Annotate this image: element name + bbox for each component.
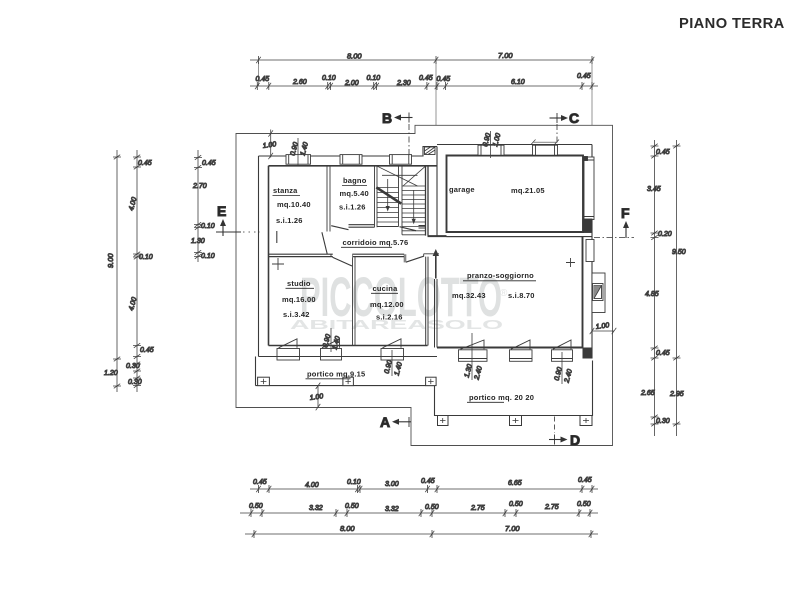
- svg-text:0.20: 0.20: [658, 231, 672, 238]
- svg-text:0.45: 0.45: [656, 350, 670, 357]
- svg-text:0.30: 0.30: [128, 379, 142, 386]
- door cucina jog: [404, 254, 406, 262]
- svg-text:0.45: 0.45: [419, 75, 433, 82]
- wall pranzo west: [435, 279, 438, 348]
- wall west outer: [258, 156, 260, 357]
- portico left pillar 3: [426, 377, 437, 385]
- dim tick: [503, 509, 508, 517]
- wall stair right: [426, 166, 429, 236]
- svg-text:s.i.8.70: s.i.8.70: [508, 291, 535, 300]
- chimney hatched box: [425, 147, 436, 155]
- dim tick: [358, 485, 363, 493]
- window bagno top: [340, 155, 362, 165]
- svg-text:0.45: 0.45: [140, 347, 154, 354]
- svg-text:3.45: 3.45: [647, 186, 661, 193]
- svg-text:garage: garage: [449, 185, 475, 194]
- svg-text:PIANO TERRA: PIANO TERRA: [679, 16, 785, 32]
- stair bottom line: [377, 226, 399, 228]
- dim tick: [133, 165, 141, 170]
- pilaster right upper: [586, 240, 594, 262]
- dim left total line: [116, 150, 118, 392]
- dim tick: [651, 415, 659, 420]
- dim tick: [328, 82, 333, 90]
- garage inner rect: [447, 156, 584, 233]
- svg-text:0.45: 0.45: [421, 478, 435, 485]
- svg-text:0.45: 0.45: [656, 149, 670, 156]
- svg-text:1.20: 1.20: [104, 370, 118, 377]
- dim tick: [133, 383, 141, 388]
- door stanza leaf: [322, 232, 327, 254]
- window ref line pranzo3 0.90/2.40: [554, 352, 574, 384]
- dim tick: [435, 82, 440, 90]
- partition stanza-bagno: [327, 166, 330, 232]
- svg-text:2.95: 2.95: [669, 391, 684, 398]
- dim tick: [430, 509, 435, 517]
- window cucina bottom 2: [381, 339, 404, 360]
- dim tick: [673, 356, 681, 361]
- section arrow D: [549, 417, 580, 449]
- dim tick: [425, 82, 430, 90]
- stairs mid horizontal: [382, 174, 418, 176]
- garage outer walls: [437, 145, 592, 359]
- svg-text:0.10: 0.10: [322, 75, 336, 82]
- window garage right: [584, 157, 595, 233]
- svg-text:0.10: 0.10: [347, 479, 361, 486]
- portico right pillar 2: [510, 416, 522, 426]
- svg-text:E: E: [217, 203, 226, 219]
- svg-text:3.32: 3.32: [309, 505, 323, 512]
- dim tick: [589, 530, 594, 538]
- svg-text:2.75: 2.75: [470, 505, 485, 512]
- stairs arrow right down: [413, 190, 415, 220]
- section arrow F: [594, 205, 634, 238]
- svg-text:2.65: 2.65: [640, 390, 655, 397]
- dim tick: [133, 255, 141, 260]
- svg-text:4.85: 4.85: [645, 291, 659, 298]
- dim tick: [267, 82, 272, 90]
- dim tick: [113, 357, 121, 362]
- dim tick: [355, 485, 360, 493]
- partition studio-cucina: [353, 257, 356, 346]
- dim tick: [133, 362, 141, 367]
- dim tick: [260, 509, 265, 517]
- dim tick: [249, 509, 254, 517]
- dim bottom pillars line: [240, 512, 598, 514]
- dim tick: [255, 82, 260, 90]
- svg-text:2.30: 2.30: [396, 80, 411, 87]
- dim line garage window2: [531, 140, 559, 145]
- svg-text:2.60: 2.60: [292, 79, 307, 86]
- svg-text:0.45: 0.45: [253, 479, 267, 486]
- svg-text:mq.5.40: mq.5.40: [340, 189, 369, 198]
- dim right segments line: [654, 140, 656, 436]
- dim tick: [325, 82, 330, 90]
- svg-text:s.i.3.42: s.i.3.42: [283, 310, 310, 319]
- dim tick: [194, 254, 202, 259]
- dim right totals line: [676, 140, 678, 436]
- garage bottom wall lower line: [428, 236, 593, 238]
- dim tick: [419, 509, 424, 517]
- dim tick: [434, 56, 439, 64]
- portico right pillar 1: [438, 416, 449, 426]
- ref dim 1.00 right: [590, 322, 617, 334]
- svg-text:0.45: 0.45: [578, 477, 592, 484]
- svg-text:studio: studio: [287, 279, 311, 288]
- svg-text:0.45: 0.45: [138, 160, 152, 167]
- svg-text:2.00: 2.00: [344, 80, 359, 87]
- portico left pillar 2: [343, 377, 354, 385]
- stairs right flight steps: [402, 186, 426, 231]
- svg-text:8.00: 8.00: [347, 52, 362, 61]
- window studio bottom: [277, 339, 300, 360]
- svg-text:3.32: 3.32: [385, 506, 399, 513]
- dim tick: [133, 376, 141, 381]
- wall west inner: [268, 166, 270, 346]
- dim tick: [252, 530, 257, 538]
- svg-text:0.45: 0.45: [202, 160, 216, 167]
- dim tick: [345, 509, 350, 517]
- dim tick: [133, 369, 141, 374]
- dim tick: [577, 509, 582, 517]
- svg-text:7.00: 7.00: [498, 51, 513, 60]
- wall cucina east: [426, 257, 428, 346]
- stairs right flight lower box: [402, 227, 426, 235]
- corridor end garage corner: [428, 235, 447, 237]
- ref dim 1.00 bottom-left: [309, 383, 324, 411]
- dim tick: [651, 346, 659, 351]
- stairs cut line thick diagonal: [376, 187, 401, 203]
- svg-text:0.30: 0.30: [656, 418, 670, 425]
- svg-text:0.50: 0.50: [425, 504, 439, 511]
- dim tick: [113, 384, 121, 389]
- cross pranzo: [566, 258, 575, 267]
- extension line x592: [591, 62, 593, 125]
- wall bottom-left inner: [269, 345, 428, 347]
- window cucina bottom 1: [321, 339, 342, 360]
- dim tick: [256, 485, 261, 493]
- door studio opening: [333, 253, 353, 258]
- svg-text:®: ®: [500, 288, 508, 299]
- dim top 8.00/7.00 line: [250, 59, 594, 61]
- pranzo inner rect: [437, 237, 583, 348]
- dim tick: [651, 422, 659, 427]
- partition bagno bottom: [349, 225, 375, 228]
- svg-text:0.10: 0.10: [139, 254, 153, 261]
- dim tick: [133, 252, 141, 257]
- dim tick: [435, 485, 440, 493]
- stairs left flight steps: [377, 188, 399, 223]
- watermark PICCOLOTTO: [290, 265, 508, 332]
- svg-text:2.70: 2.70: [192, 183, 207, 190]
- ref dim 1.00 top-left: [262, 130, 277, 160]
- wall stair left: [375, 166, 378, 227]
- dim bottom segments line: [250, 488, 598, 490]
- dim tick: [514, 509, 519, 517]
- svg-text:0.10: 0.10: [201, 223, 215, 230]
- svg-text:F: F: [621, 205, 630, 221]
- door studio leaf: [333, 257, 353, 266]
- svg-text:0.50: 0.50: [509, 501, 523, 508]
- window ref line cucina 0.90/1.40: [322, 328, 342, 352]
- svg-text:0.50: 0.50: [249, 503, 263, 510]
- dim tick: [113, 155, 121, 160]
- extension line x258: [258, 62, 260, 86]
- window ref line cucina2 0.90/1.40: [384, 350, 404, 377]
- svg-text:mq.10.40: mq.10.40: [277, 200, 311, 209]
- wall stair divider: [399, 166, 403, 227]
- dim tick: [267, 485, 272, 493]
- window stanza top: [286, 155, 311, 165]
- dim tick: [580, 82, 585, 90]
- window garage top 2: [533, 145, 558, 155]
- dim tick: [588, 509, 593, 517]
- outer boundary line: [236, 125, 613, 445]
- svg-text:3.00: 3.00: [385, 481, 399, 488]
- svg-text:corridoio mq.5.76: corridoio mq.5.76: [343, 238, 409, 247]
- dim top segments line: [250, 85, 598, 87]
- dim bottom totals line: [245, 533, 598, 535]
- svg-text:mq.16.00: mq.16.00: [282, 295, 316, 304]
- svg-text:bagno: bagno: [343, 176, 367, 185]
- door studio jamb: [331, 254, 353, 256]
- dim tick: [374, 82, 379, 90]
- window stair top: [390, 155, 412, 165]
- dim tick: [133, 155, 141, 160]
- wall cucina top-right corner: [424, 254, 439, 257]
- svg-text:9.50: 9.50: [672, 249, 686, 256]
- portico left floor edge: [256, 357, 435, 386]
- dim tick: [133, 354, 141, 359]
- svg-text:0.50: 0.50: [345, 503, 359, 510]
- svg-text:0.45: 0.45: [577, 73, 591, 80]
- svg-text:6.10: 6.10: [511, 79, 525, 86]
- svg-text:0.10: 0.10: [367, 75, 381, 82]
- section arrow A: [380, 414, 411, 430]
- svg-text:mq.21.05: mq.21.05: [511, 186, 545, 195]
- svg-text:s.i.2.16: s.i.2.16: [376, 313, 403, 322]
- window ref line pranzo 1.30/2.40: [464, 333, 484, 381]
- window ref line stanza 0.90/1.40: [290, 138, 310, 166]
- dim tick: [430, 530, 435, 538]
- svg-text:portico mq. 20 20: portico mq. 20 20: [469, 393, 534, 402]
- dim tick: [443, 82, 448, 90]
- svg-text:4.00: 4.00: [305, 482, 319, 489]
- dim tick: [371, 82, 376, 90]
- svg-text:0.45: 0.45: [437, 76, 451, 83]
- svg-text:C: C: [569, 110, 579, 126]
- dim tick: [580, 485, 585, 493]
- svg-text:stanza: stanza: [273, 186, 298, 195]
- stairs arrow left down: [387, 179, 389, 207]
- svg-text:D: D: [570, 432, 580, 448]
- dim tick: [194, 225, 202, 230]
- window pranzo bottom 3: [552, 340, 573, 361]
- dim tick: [194, 222, 202, 227]
- door stair leaf: [400, 227, 417, 231]
- wall top-left inner: [269, 165, 438, 167]
- svg-text:0.10: 0.10: [201, 253, 215, 260]
- svg-text:9.00: 9.00: [106, 253, 115, 268]
- dim left segments line: [136, 150, 138, 392]
- dim tick: [651, 154, 659, 159]
- dim tick: [651, 231, 659, 236]
- stairs top diagonals: [378, 166, 426, 186]
- dim tick: [651, 356, 659, 361]
- svg-text:2.75: 2.75: [544, 504, 559, 511]
- svg-text:A: A: [380, 414, 390, 430]
- window pranzo bottom 1: [459, 340, 488, 361]
- section arrow E: [216, 203, 260, 236]
- dim tick: [651, 144, 659, 149]
- wall corridor east seg: [419, 226, 426, 229]
- window pranzo bottom 2: [510, 340, 533, 361]
- svg-text:1.30: 1.30: [191, 238, 205, 245]
- dim tick: [673, 144, 681, 149]
- svg-text:s.i.1.26: s.i.1.26: [276, 216, 303, 225]
- svg-text:mq.12.00: mq.12.00: [370, 300, 404, 309]
- pranzo top inner line: [447, 236, 583, 238]
- dim tick: [651, 235, 659, 240]
- portico right pillar 3: [580, 416, 592, 426]
- svg-text:0.50: 0.50: [577, 501, 591, 508]
- dim tick: [256, 56, 261, 64]
- dim tick: [590, 56, 595, 64]
- svg-text:6.65: 6.65: [508, 480, 522, 487]
- section arrow C: [550, 110, 580, 145]
- extension line x436: [435, 62, 437, 125]
- svg-text:8.00: 8.00: [340, 524, 355, 533]
- svg-text:pranzo-soggiorno: pranzo-soggiorno: [467, 271, 534, 280]
- dim tick: [133, 343, 141, 348]
- passage arrow up: [435, 253, 437, 279]
- corner block bottom right: [583, 348, 593, 359]
- door cucina leaf: [406, 256, 424, 262]
- door bagno leaf: [331, 226, 348, 230]
- fireplace flue: [592, 273, 605, 313]
- dim tick: [590, 485, 595, 493]
- wall bottom-left outer: [259, 356, 438, 358]
- portico right outline: [435, 361, 593, 416]
- svg-text:portico mq.9.15: portico mq.9.15: [307, 370, 365, 379]
- svg-text:mq.32.43: mq.32.43: [452, 291, 486, 300]
- dim left inner line: [197, 150, 199, 262]
- dim tick: [194, 165, 202, 170]
- dim tick: [590, 82, 595, 90]
- section arrow B: [382, 110, 413, 156]
- mark stanza door: [276, 231, 278, 243]
- wall top-left outer: [259, 147, 438, 157]
- svg-text:0.30: 0.30: [126, 363, 140, 370]
- dim tick: [194, 155, 202, 160]
- portico left pillar 1: [258, 377, 270, 385]
- dim tick: [334, 509, 339, 517]
- dim tick: [673, 422, 681, 427]
- window garage top 1: [478, 145, 504, 155]
- svg-text:s.i.1.26: s.i.1.26: [339, 203, 366, 212]
- window ref line garage 0.90/1.00: [482, 131, 502, 158]
- cross studio: [272, 258, 284, 270]
- wall corridor bottom (studio-cucina top): [269, 254, 405, 256]
- svg-text:7.00: 7.00: [505, 524, 520, 533]
- dim tick: [425, 485, 430, 493]
- svg-text:cucina: cucina: [373, 284, 399, 293]
- svg-text:B: B: [382, 110, 392, 126]
- svg-text:0.45: 0.45: [256, 76, 270, 83]
- dim tick: [194, 250, 202, 255]
